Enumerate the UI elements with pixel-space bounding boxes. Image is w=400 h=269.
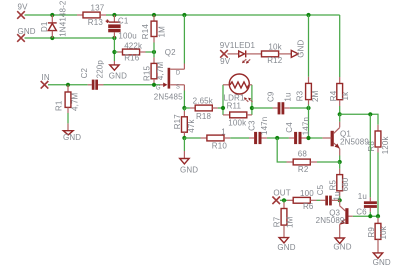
pin GND input xyxy=(17,27,36,42)
wire R2 branch xyxy=(277,138,286,162)
node gndrail-D1 xyxy=(50,36,54,40)
capacitor C9 xyxy=(267,91,293,114)
svg-text:1u: 1u xyxy=(332,191,341,200)
resistor R6 xyxy=(287,189,317,211)
wire LDR-R11 left branch xyxy=(222,85,224,115)
wire 9V rail left xyxy=(25,14,78,16)
node LDR right xyxy=(250,106,254,110)
svg-text:100: 100 xyxy=(300,189,314,198)
svg-text:47k: 47k xyxy=(187,119,196,133)
wire R3 branch from rail xyxy=(308,15,310,77)
svg-text:1N4148-2: 1N4148-2 xyxy=(58,0,67,37)
svg-text:2.65k: 2.65k xyxy=(193,96,214,105)
svg-text:C2: C2 xyxy=(80,67,89,78)
ground below R7 xyxy=(277,238,295,252)
svg-text:100u: 100u xyxy=(118,31,136,40)
svg-text:OUT: OUT xyxy=(273,188,290,197)
wire OUT to R6 xyxy=(280,199,287,201)
resistor R14 xyxy=(141,15,167,52)
svg-text:C3: C3 xyxy=(248,120,257,131)
svg-text:220p: 220p xyxy=(95,60,104,79)
svg-text:G: G xyxy=(156,85,161,91)
wire C9 to R3 node xyxy=(290,107,309,109)
svg-text:R2: R2 xyxy=(298,165,309,174)
transistor Q1 2N5089 xyxy=(322,114,369,162)
svg-text:R3: R3 xyxy=(295,90,304,101)
svg-text:422k: 422k xyxy=(124,42,143,51)
wire LED1 to R12 xyxy=(246,53,262,55)
resistor R3 xyxy=(295,77,320,108)
svg-text:R11: R11 xyxy=(227,101,242,110)
wire 9V to LED1 xyxy=(228,53,239,55)
svg-text:R15: R15 xyxy=(143,65,152,81)
resistor R13 xyxy=(77,3,106,26)
node C6 top branch xyxy=(368,112,372,116)
node Q2source-R17-R18 xyxy=(182,106,186,110)
node Q1 emitter-R2-R5 xyxy=(338,160,342,164)
node C1-R16-GND xyxy=(112,50,116,54)
LED LED1 xyxy=(239,50,251,63)
ground below R9 xyxy=(373,253,391,267)
svg-text:68: 68 xyxy=(298,150,308,159)
svg-text:1M: 1M xyxy=(158,26,167,38)
svg-text:GND: GND xyxy=(180,166,198,175)
resistor R7 xyxy=(273,200,295,237)
node LDR left xyxy=(221,106,225,110)
svg-text:147n: 147n xyxy=(301,117,310,135)
node rail-R3 xyxy=(306,13,310,17)
svg-text:680: 680 xyxy=(341,177,350,191)
resistor R5 xyxy=(329,162,350,200)
resistor R2 xyxy=(287,150,318,174)
node R8-R9 xyxy=(376,214,380,218)
node C9-R3 xyxy=(306,106,310,110)
diode D1 xyxy=(40,0,68,38)
wire C4 to Q1 base xyxy=(307,137,323,139)
svg-text:R12: R12 xyxy=(267,56,283,65)
svg-text:GND: GND xyxy=(297,40,306,58)
wire C3 to C4 xyxy=(267,137,289,139)
pin OUT xyxy=(272,188,290,204)
resistor R10 xyxy=(201,127,231,150)
capacitor C5 xyxy=(316,184,342,205)
svg-text:C1: C1 xyxy=(118,17,129,26)
svg-text:R18: R18 xyxy=(196,112,212,121)
svg-text:R17: R17 xyxy=(173,114,182,130)
svg-text:1M: 1M xyxy=(286,216,295,228)
node C6-Q3base xyxy=(368,214,372,218)
resistor R16 xyxy=(114,42,154,63)
svg-text:C5: C5 xyxy=(316,184,325,195)
capacitor C2 xyxy=(80,60,104,90)
wire LDR-R11 right branch xyxy=(251,85,253,115)
wire C6 branch xyxy=(369,114,371,197)
resistor R4 xyxy=(329,77,350,114)
ground below R17 xyxy=(180,138,199,175)
wire R2 to Q1 emitter xyxy=(317,161,340,163)
svg-text:GND: GND xyxy=(277,243,295,252)
svg-text:147n: 147n xyxy=(260,117,269,135)
svg-text:R4: R4 xyxy=(329,90,338,101)
svg-text:R5: R5 xyxy=(329,179,338,190)
svg-text:C4: C4 xyxy=(285,122,294,133)
svg-text:IN: IN xyxy=(42,73,50,82)
svg-text:R1: R1 xyxy=(55,100,64,111)
svg-text:Q2: Q2 xyxy=(165,48,176,57)
node rail-C1 xyxy=(112,13,116,17)
capacitor C6 xyxy=(356,192,377,217)
svg-text:120k: 120k xyxy=(381,136,390,155)
svg-text:R13: R13 xyxy=(88,18,104,27)
wire IN to C2 xyxy=(48,84,88,86)
resistor R1 xyxy=(55,85,80,124)
resistor R17 xyxy=(173,108,196,138)
svg-text:R6: R6 xyxy=(303,202,314,211)
node IN-R1 xyxy=(66,83,70,87)
svg-text:137: 137 xyxy=(91,3,105,12)
wire R11node to C9 xyxy=(252,107,273,109)
node C3-C4-R2 xyxy=(275,136,279,140)
svg-text:9V: 9V xyxy=(220,57,231,66)
wire C1 to R16 node xyxy=(113,38,115,61)
svg-text:10k: 10k xyxy=(268,42,282,51)
wire R4 branch from rail xyxy=(339,15,341,77)
svg-text:GND: GND xyxy=(333,243,351,252)
ground below C1 xyxy=(109,61,127,80)
svg-text:9V: 9V xyxy=(18,3,29,12)
svg-text:4,7M: 4,7M xyxy=(70,92,79,111)
svg-text:2N5089: 2N5089 xyxy=(316,216,345,225)
svg-text:9V1LED1: 9V1LED1 xyxy=(220,41,256,50)
capacitor C4 xyxy=(285,117,310,144)
svg-text:GND: GND xyxy=(63,133,81,142)
svg-text:S: S xyxy=(176,85,180,91)
svg-text:2N5089: 2N5089 xyxy=(340,138,369,147)
resistor R12 xyxy=(262,42,292,65)
svg-text:R10: R10 xyxy=(212,141,228,150)
wire R10 row xyxy=(184,137,200,139)
svg-text:2M: 2M xyxy=(311,90,320,102)
ground right of R12 xyxy=(291,40,305,58)
svg-text:R7: R7 xyxy=(273,216,282,227)
resistor R8 xyxy=(367,125,390,216)
svg-text:1k: 1k xyxy=(341,91,350,101)
svg-text:R16: R16 xyxy=(124,53,140,62)
resistor R18 xyxy=(184,96,223,121)
svg-text:1u: 1u xyxy=(358,192,367,201)
capacitor C1 xyxy=(106,15,137,40)
svg-text:C9: C9 xyxy=(267,91,276,102)
wire C2 to Q2 gate xyxy=(104,84,161,86)
ground below Q3 xyxy=(333,238,351,252)
transistor Q3 2N5089 mirrored xyxy=(316,200,353,238)
node OUT-R7 xyxy=(282,198,286,202)
svg-text:GND: GND xyxy=(18,27,36,36)
node rail-D1 xyxy=(50,13,54,17)
svg-text:1: 1 xyxy=(221,127,226,136)
node C4-R3 xyxy=(306,136,310,140)
svg-text:D1: D1 xyxy=(40,21,49,32)
svg-text:GND: GND xyxy=(373,258,391,267)
wire GND rail xyxy=(25,37,115,39)
svg-text:R9: R9 xyxy=(367,227,376,238)
LDR1 xyxy=(223,74,253,103)
node gndrail-C1 xyxy=(112,36,116,40)
node R16-R14-R15 xyxy=(152,50,156,54)
transistor Q2 2N5485 xyxy=(154,15,185,108)
node rail-R14 xyxy=(152,13,156,17)
resistor R15 xyxy=(143,52,166,85)
wire 9V rail right xyxy=(106,14,340,16)
wire R3 node down to C4 row xyxy=(308,108,310,138)
svg-text:GND: GND xyxy=(109,71,127,80)
resistor R9 xyxy=(367,216,388,253)
svg-text:R14: R14 xyxy=(141,24,150,40)
wire R4 node to R8 xyxy=(340,114,378,125)
svg-text:C6: C6 xyxy=(356,207,367,216)
pin IN xyxy=(41,73,50,89)
capacitor C3 xyxy=(248,117,270,145)
node R5-C5-Q3 xyxy=(338,198,342,202)
node gate-R15 xyxy=(152,83,156,87)
svg-text:100k: 100k xyxy=(228,118,247,127)
resistor R11 xyxy=(223,101,252,127)
svg-text:1u: 1u xyxy=(283,92,292,101)
pin 9V LED supply xyxy=(220,41,256,66)
wire Q3 base to C6 node xyxy=(353,215,378,217)
node R17-R10-GND xyxy=(182,136,186,140)
svg-text:D: D xyxy=(176,70,181,76)
wire R10 to C3 xyxy=(230,137,249,139)
svg-text:4,7M: 4,7M xyxy=(156,62,165,81)
svg-text:10k: 10k xyxy=(379,225,388,239)
wire R6 to C5 xyxy=(317,199,321,201)
pin 9V xyxy=(17,3,28,19)
node R4-Q1 xyxy=(338,112,342,116)
ground below R1 xyxy=(63,123,81,142)
svg-text:2N5485: 2N5485 xyxy=(154,92,183,101)
node rail-Q2drain xyxy=(182,13,186,17)
